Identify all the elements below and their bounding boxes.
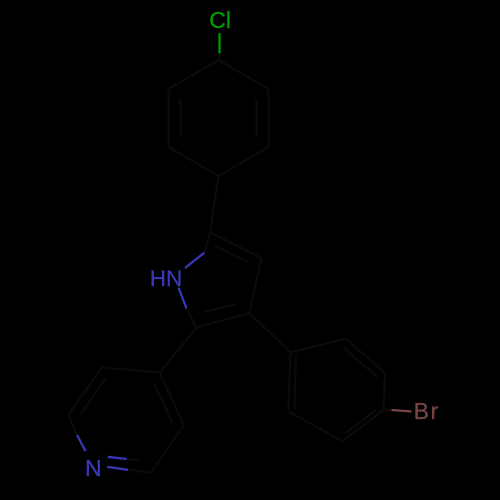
bond B6-B1 — [288, 352, 290, 411]
bond B2-B3 — [346, 339, 385, 373]
double bond C3'=C4' inner line — [154, 383, 173, 423]
bond B4-Br colored half (dark red) — [392, 410, 412, 412]
pyrrole ring carbons — [197, 232, 262, 327]
bond N=C2' main dark part — [128, 470, 151, 473]
bond C3'-C4' — [160, 373, 185, 426]
double bond B4=B5 inner line — [345, 410, 376, 433]
double bond inner line right — [255, 99, 257, 137]
bond C2-C3 — [210, 232, 262, 258]
chlorophenyl ring — [169, 60, 269, 176]
bond B4-B5 — [342, 410, 383, 441]
bond C4-B1 (pyrrole to bromophenyl) — [250, 313, 291, 352]
double bond B6=B1 inner line — [295, 357, 296, 409]
bond Cl-C1 dark tail — [219, 53, 220, 60]
bond C6'-N dark half — [69, 415, 78, 435]
bond A4-A5 — [169, 147, 219, 176]
bond A5-A6 — [167, 89, 169, 147]
svg-text:N: N — [85, 455, 102, 481]
bond Cl-C1 colored half (green) — [218, 33, 220, 53]
bond C4'-C5' — [102, 367, 160, 372]
svg-text:Cl: Cl — [209, 7, 231, 33]
pyrrole N-C2 bond colored half (blue) — [185, 253, 205, 269]
double bond B2=B3 inner line — [345, 349, 378, 378]
double bond C4=C5 inner line — [204, 304, 236, 312]
pyrrole N-C5 bond colored half (blue) — [179, 288, 187, 309]
bond A2-A3 — [267, 89, 269, 147]
bond A4-C2 (ring to pyrrole) — [210, 176, 219, 232]
pyridine ring — [69, 367, 185, 472]
bond C4-C5 — [197, 313, 250, 328]
bond B1-B2 — [291, 339, 346, 353]
bond A6-A1 — [169, 60, 219, 89]
double bond C5'=C6' inner line — [80, 379, 105, 415]
double bond inner line left — [179, 99, 181, 137]
pyrrole N-C2 bond dark half — [205, 232, 211, 252]
bond C2'-C3' — [151, 425, 184, 473]
bromophenyl ring — [288, 339, 391, 442]
bond A3-A4 — [219, 147, 269, 176]
svg-text:HN: HN — [150, 266, 183, 291]
bond B5-B6 — [288, 411, 342, 441]
bond C5-C4' (pyrrole to pyridine) — [160, 328, 197, 373]
bond C3-C4 — [250, 258, 262, 313]
bond A1-A2 — [219, 60, 269, 89]
bond B3-B4 — [384, 373, 385, 410]
pyrrole N-C5 bond dark half — [187, 309, 197, 328]
pyridine N-C6' blue half — [77, 435, 86, 451]
pyridine N=C2' main blue part — [107, 467, 128, 470]
pyridine N=C2' inner blue part — [108, 457, 127, 459]
bond C5'-C6' — [69, 367, 102, 415]
bond B4-Br dark tail — [384, 409, 392, 411]
bond N=C2' inner dark part — [127, 459, 140, 461]
double bond C2=C3 inner line — [215, 246, 248, 262]
svg-text:Br: Br — [414, 398, 440, 424]
